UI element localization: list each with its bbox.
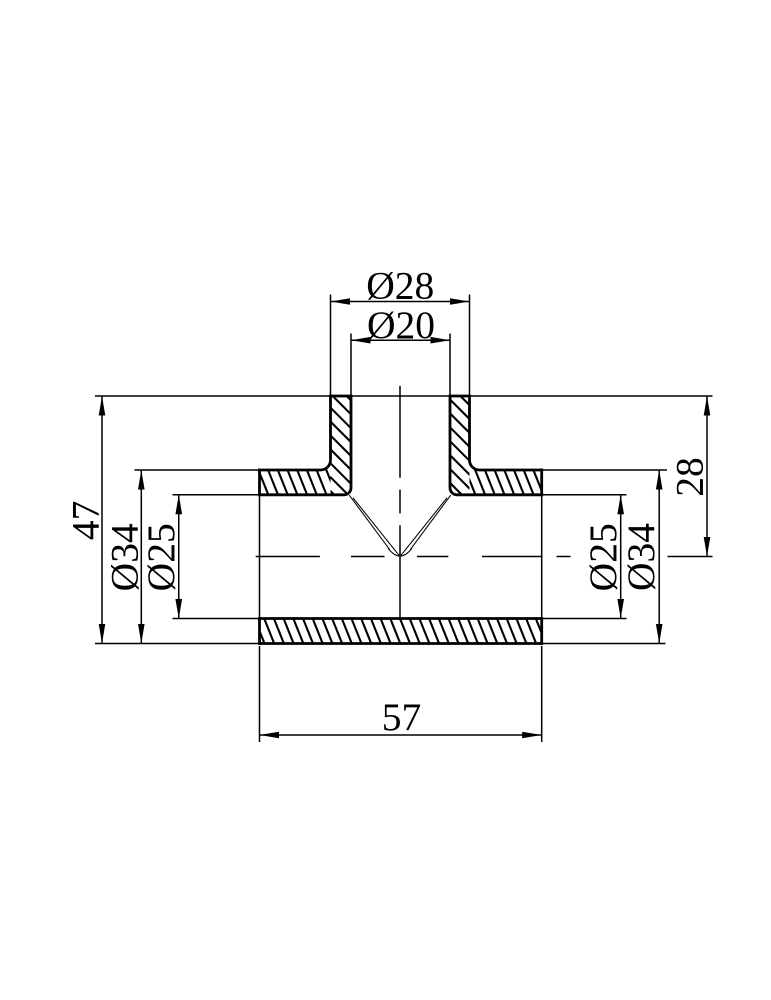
arrowhead 57 right — [522, 732, 542, 739]
extension lines top row y=396 — [95, 395, 713, 397]
dim line diameter 25 right — [620, 495, 622, 619]
cone line right outer — [411, 495, 451, 549]
hatch right branch wall — [438, 346, 480, 527]
svg-text:Ø34: Ø34 — [619, 523, 663, 591]
arrowhead diameter 25 left bottom — [175, 599, 182, 619]
svg-text:Ø20: Ø20 — [367, 303, 435, 347]
right end face — [540, 470, 543, 644]
arrowhead 47 bottom — [99, 624, 106, 644]
arrowhead diameter 34 left top — [138, 470, 145, 490]
arrowhead diameter 25 left top — [175, 495, 182, 515]
hatch bottom wall — [250, 0, 550, 1000]
bottom wall top edge — [260, 617, 542, 620]
cone line left outer — [349, 495, 389, 549]
dim line diameter 34 left — [140, 470, 142, 644]
dim line 47 — [101, 396, 103, 644]
svg-text:57: 57 — [382, 695, 422, 739]
dim line diameter 34 right — [658, 470, 660, 644]
arrowhead 28 top — [704, 396, 711, 416]
arrowhead diameter 20 left — [351, 337, 371, 344]
hatch left flange — [250, 231, 340, 698]
left end face — [258, 470, 261, 644]
dim line 57 — [260, 734, 542, 736]
arrowhead diameter 34 right top — [656, 470, 663, 490]
hatch right flange — [460, 214, 550, 706]
arrowhead diameter 28 right — [450, 298, 470, 305]
hatch left branch wall — [318, 340, 362, 537]
bottom wall bottom edge — [260, 642, 542, 645]
svg-text:28: 28 — [668, 457, 712, 497]
extension line 28 bottom — [668, 556, 713, 558]
svg-text:Ø25: Ø25 — [139, 523, 183, 591]
dim line diameter 28 — [331, 301, 470, 303]
vertical centerline — [399, 386, 401, 619]
arrowhead diameter 20 right — [431, 337, 451, 344]
extension lines for 57 — [260, 646, 542, 742]
cone bottom arc — [388, 548, 412, 556]
dim line diameter 25 left — [178, 495, 180, 619]
arrowhead diameter 34 right bottom — [656, 624, 663, 644]
extension lines for diameter 20 — [351, 334, 450, 397]
outline right branch wall and flange — [450, 396, 542, 495]
arrowhead 57 left — [260, 732, 280, 739]
cone line right inner — [401, 498, 447, 556]
extension lines y=494.8 — [173, 494, 627, 496]
arrowhead diameter 28 left — [331, 298, 351, 305]
extension lines for diameter 28 — [331, 295, 470, 397]
arrowhead diameter 25 right top — [617, 495, 624, 515]
outline left branch wall and flange — [260, 396, 352, 495]
svg-text:Ø28: Ø28 — [366, 264, 434, 308]
cone line left inner — [353, 498, 399, 556]
arrowhead 47 top — [99, 396, 106, 416]
extension lines y=643.5 — [95, 643, 666, 645]
dim line diameter 20 — [351, 339, 450, 341]
arrowhead 28 bottom — [704, 537, 711, 557]
arrowhead diameter 34 left bottom — [138, 624, 145, 644]
dim line 28 — [706, 396, 708, 557]
horizontal centerline — [256, 556, 571, 558]
extension lines y=470 — [135, 469, 668, 471]
extension lines y=618.5 — [173, 618, 627, 620]
arrowhead diameter 25 right bottom — [617, 599, 624, 619]
svg-text:47: 47 — [64, 501, 108, 541]
